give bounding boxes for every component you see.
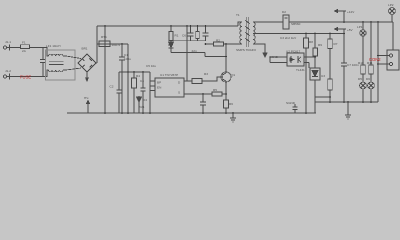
svg-text:BR1: BR1 (82, 47, 88, 51)
wire choke to bridge lower (63, 69, 66, 71)
clamp jog (204, 53, 206, 57)
svg-text:+5V: +5V (347, 28, 354, 32)
led resistor R11 (369, 22, 374, 74)
fuse F1 (21, 45, 30, 49)
zener D4 (137, 96, 142, 113)
net arrow HVRTN (87, 101, 90, 114)
node wire y72 (119, 71, 150, 73)
feedback resistor R7 (328, 34, 332, 103)
svg-text:LP1: LP1 (357, 25, 363, 29)
supply arrow VCC (335, 9, 346, 22)
capacitor CX1 (40, 48, 46, 77)
wire N to filter (11, 76, 43, 78)
svg-text:D2: D2 (282, 10, 286, 14)
drain wire (225, 44, 227, 73)
svg-text:SGND: SGND (286, 101, 296, 105)
choke winding upper (49, 54, 63, 56)
svg-text:+12V: +12V (347, 10, 355, 14)
svg-text:FUSE: FUSE (20, 75, 31, 80)
divider resistor R8 (304, 34, 309, 114)
top rail primary (97, 25, 238, 27)
output diode D2 (283, 15, 289, 29)
earth secondary (345, 102, 351, 119)
bus step (314, 102, 316, 113)
choke box L1 (46, 50, 76, 80)
svg-text:LF1 10mH: LF1 10mH (46, 44, 60, 48)
snubber resistor R2 (206, 42, 227, 46)
primary wire to transformer (226, 43, 242, 45)
svg-text:R9: R9 (318, 43, 322, 47)
output capacitor C7 (341, 34, 347, 103)
bridge rectifier BR1 (78, 54, 96, 72)
svg-text:R4: R4 (136, 74, 140, 78)
led D6 (368, 74, 375, 102)
svg-text:U1 TNY267P: U1 TNY267P (160, 73, 178, 77)
svg-text:T1: T1 (236, 13, 240, 17)
IC bypass drop (186, 26, 188, 81)
svg-text:S: S (178, 91, 180, 95)
lamp L2 (360, 30, 366, 36)
svg-text:R1: R1 (175, 34, 179, 38)
clamp wire A2 (171, 52, 205, 54)
right edge drop (392, 22, 394, 50)
primary ground bus (67, 112, 316, 114)
svg-text:R5: R5 (213, 88, 217, 92)
connector J1 pin L (3, 45, 20, 51)
source wire (225, 82, 227, 101)
svg-text:CON2: CON2 (369, 57, 381, 62)
capacitor C2 (117, 72, 122, 113)
svg-text:EN: EN (157, 86, 161, 90)
svg-text:D1: D1 (168, 43, 172, 47)
svg-text:R3: R3 (204, 72, 208, 76)
wire choke to bridge upper (63, 55, 66, 57)
svg-text:SGND: SGND (269, 55, 279, 59)
secondary rail (289, 21, 393, 23)
capacitor C4 (141, 72, 146, 113)
secondary return (253, 44, 265, 53)
svg-text:J1-2: J1-2 (5, 69, 11, 73)
svg-text:HV-: HV- (84, 96, 89, 100)
transformer T1 primary winding (240, 22, 242, 44)
wire lamp to rail (391, 14, 393, 22)
svg-text:RT1: RT1 (101, 35, 107, 39)
svg-text:C4: C4 (140, 79, 144, 83)
rail drop to transformer (238, 22, 242, 26)
svg-text:22n: 22n (192, 49, 197, 53)
secondary ground bus (315, 101, 378, 103)
svg-text:5V1: 5V1 (139, 105, 145, 109)
op IC U1 (150, 78, 188, 97)
svg-text:D6: D6 (366, 77, 370, 81)
long vertical DC return (104, 26, 106, 113)
transformer T1 secondary winding (253, 22, 255, 44)
transistor Q1 (219, 72, 231, 82)
clamp resistor R1 (169, 26, 173, 41)
wire L corner into choke (43, 48, 49, 57)
shunt reg U3 (310, 68, 330, 102)
svg-text:C6: C6 (182, 34, 186, 38)
sense wire y95 (188, 93, 212, 95)
svg-text:LP2: LP2 (388, 3, 394, 7)
connector J1 pin N (3, 74, 11, 80)
svg-text:R2: R2 (216, 39, 220, 43)
NTC wire (97, 43, 128, 45)
vertical bulk rail (127, 44, 129, 113)
lamp L3 (389, 8, 396, 15)
clamp bus A (169, 40, 206, 42)
source resistor R6 (224, 100, 229, 113)
opto U2 (287, 53, 304, 66)
clamp capacitor C6 (188, 26, 194, 41)
svg-text:D5: D5 (358, 77, 362, 81)
svg-text:BP: BP (157, 81, 161, 85)
svg-text:Q1: Q1 (231, 73, 235, 77)
clamp diode D1 (169, 41, 174, 53)
svg-text:R7: R7 (334, 42, 338, 46)
choke core bars (49, 62, 64, 65)
snub capacitor C8 (203, 26, 209, 41)
opto output wires (304, 57, 315, 68)
wire bridge minus down (86, 72, 88, 78)
sense resistor R5 (212, 92, 226, 96)
svg-text:U3: U3 (321, 74, 325, 78)
svg-text:C2: C2 (110, 85, 114, 89)
output connector CON2 (378, 50, 399, 70)
svg-text:SMPS TRAFO: SMPS TRAFO (236, 48, 257, 52)
svg-text:U2 PC817: U2 PC817 (286, 50, 301, 54)
sense capacitor C9 (200, 94, 206, 113)
supply arrow VTAP (335, 27, 346, 33)
svg-text:R6: R6 (229, 102, 233, 106)
wire N corner into choke (43, 70, 49, 77)
svg-text:C3 2n2 1kV: C3 2n2 1kV (280, 36, 297, 40)
secondary tap wire (253, 33, 344, 35)
transformer T1 core (245, 17, 249, 47)
capacitor C10 on bus (293, 104, 298, 113)
svg-text:R8: R8 (309, 40, 313, 44)
secondary top wire (253, 21, 283, 23)
thermistor RT1 (99, 41, 110, 47)
svg-text:C5 10u: C5 10u (146, 64, 156, 68)
led resistor R10 (361, 22, 366, 74)
svg-text:10D-9: 10D-9 (112, 43, 121, 47)
resistor R4 (132, 72, 137, 113)
svg-text:100u: 100u (124, 57, 131, 61)
svg-text:J1-1: J1-1 (5, 40, 11, 44)
divider resistor R9 (313, 34, 317, 69)
svg-text:R10: R10 (358, 61, 364, 65)
capacitor C1 (119, 44, 125, 113)
opto input wires (270, 57, 287, 63)
wire L to filter (30, 47, 45, 49)
right vertical bus (377, 22, 379, 102)
clamp wire B (205, 56, 226, 58)
clamp resistor R2 (196, 26, 199, 41)
svg-text:F1: F1 (22, 41, 26, 45)
svg-text:D4: D4 (143, 98, 147, 102)
wire bridge plus up (96, 26, 98, 63)
gate resistor R3 (188, 77, 219, 83)
wire IC left column (149, 72, 151, 113)
earth primary (230, 113, 236, 122)
wire bridge out (96, 62, 97, 64)
svg-text:SB560: SB560 (291, 22, 301, 26)
led D5 (360, 74, 367, 102)
choke winding lower (49, 70, 63, 72)
svg-text:TL431: TL431 (296, 68, 305, 72)
